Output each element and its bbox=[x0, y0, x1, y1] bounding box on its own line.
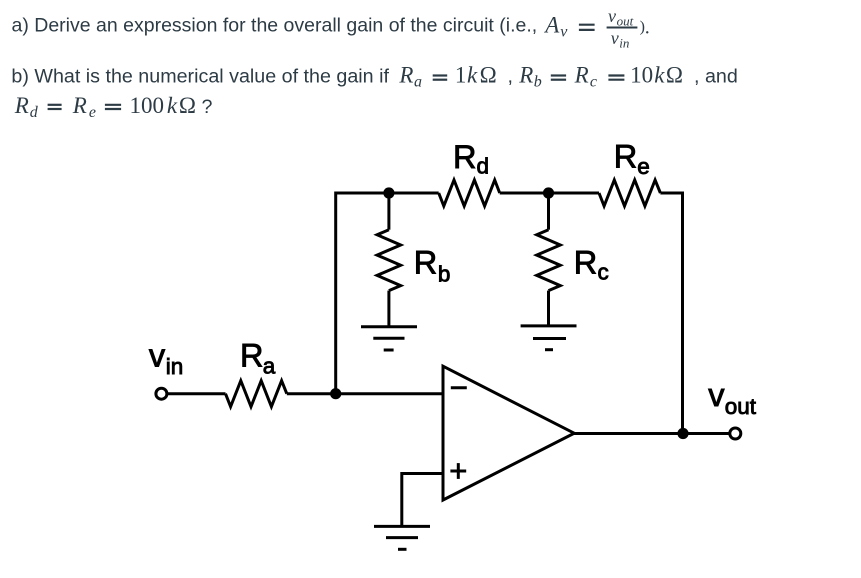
svg-text:b) What is the numerical value: b) What is the numerical value of the ga… bbox=[11, 66, 389, 88]
svg-text:A: A bbox=[543, 12, 560, 37]
svg-text:c: c bbox=[590, 74, 597, 91]
node at top wire / Rc bbox=[543, 187, 554, 198]
node at inverting input bbox=[330, 388, 341, 399]
svg-text:.: . bbox=[645, 17, 650, 39]
svg-text:R: R bbox=[14, 93, 29, 118]
wire: Rc branch upper stub bbox=[547, 193, 550, 230]
svg-text:d: d bbox=[30, 104, 39, 121]
svg-text:,: , bbox=[508, 66, 513, 88]
svg-text:R: R bbox=[453, 139, 476, 175]
svg-text:Ω: Ω bbox=[179, 93, 196, 118]
wire: top between Rd and Re bbox=[500, 192, 599, 195]
svg-text:R: R bbox=[574, 63, 589, 88]
svg-text:R: R bbox=[240, 338, 263, 374]
svg-text:Ω: Ω bbox=[480, 63, 497, 88]
svg-text:R: R bbox=[574, 244, 597, 280]
wire: non-inverting input to ground bbox=[402, 474, 443, 527]
svg-text:v: v bbox=[611, 28, 619, 48]
svg-text:k: k bbox=[467, 63, 478, 88]
wire: Ra to op-amp inverting input bbox=[287, 392, 444, 395]
svg-text:a) Derive an expression for th: a) Derive an expression for the overall … bbox=[12, 14, 538, 36]
ground under Rb bbox=[361, 325, 417, 328]
svg-text:in: in bbox=[166, 354, 184, 379]
resistor Ra bbox=[226, 381, 287, 407]
svg-text:v: v bbox=[608, 6, 616, 26]
wire: Rb branch upper stub bbox=[387, 193, 390, 230]
output terminal vout bbox=[730, 428, 741, 439]
svg-text:c: c bbox=[598, 260, 609, 285]
node at top wire / Rb bbox=[383, 187, 394, 198]
op-amp U1 triangle bbox=[443, 366, 574, 500]
svg-text:k: k bbox=[167, 93, 178, 118]
resistor Rc bbox=[537, 230, 561, 291]
svg-text:out: out bbox=[617, 13, 634, 28]
wire: top-right corner down to output node bbox=[660, 193, 682, 434]
resistor Rb bbox=[377, 230, 401, 291]
svg-text:d: d bbox=[477, 153, 490, 178]
svg-text:Ω: Ω bbox=[666, 63, 683, 88]
svg-text:v: v bbox=[149, 338, 166, 374]
wire: left feedback vertical from input node to top wire bbox=[336, 193, 439, 394]
ground under Rc bbox=[521, 324, 577, 327]
svg-text:b: b bbox=[438, 262, 451, 287]
wire: Rb to ground bbox=[387, 291, 390, 327]
svg-text:10: 10 bbox=[630, 63, 653, 88]
svg-text:1: 1 bbox=[455, 63, 467, 88]
svg-text:, and: , and bbox=[694, 66, 738, 88]
wire: vin to Ra bbox=[168, 392, 226, 395]
svg-text:R: R bbox=[414, 244, 437, 280]
svg-text:?: ? bbox=[202, 96, 213, 118]
ground at op-amp + input bbox=[374, 525, 430, 528]
op-amp minus sign bbox=[451, 386, 467, 389]
svg-text:R: R bbox=[72, 93, 87, 118]
op-amp plus sign bbox=[450, 470, 466, 473]
svg-text:k: k bbox=[654, 63, 665, 88]
equals sign line 1 bbox=[579, 25, 595, 30]
svg-text:R: R bbox=[398, 63, 413, 88]
svg-text:a: a bbox=[414, 74, 422, 91]
svg-text:e: e bbox=[89, 104, 96, 121]
svg-text:100: 100 bbox=[130, 93, 165, 118]
svg-text:b: b bbox=[534, 74, 542, 91]
svg-text:out: out bbox=[725, 394, 757, 419]
input terminal vin bbox=[156, 388, 167, 399]
svg-text:v: v bbox=[560, 23, 568, 40]
svg-text:R: R bbox=[518, 63, 533, 88]
fraction v_out over v_in bbox=[607, 6, 638, 50]
wire: Rc to ground bbox=[547, 291, 550, 326]
wire: op-amp output to vout terminal bbox=[574, 432, 730, 435]
svg-text:R: R bbox=[614, 138, 637, 174]
svg-text:a: a bbox=[263, 354, 276, 379]
svg-text:in: in bbox=[619, 35, 629, 50]
resistor Rd bbox=[439, 180, 500, 206]
node at output bbox=[677, 428, 688, 439]
svg-text:e: e bbox=[637, 154, 650, 179]
svg-text:v: v bbox=[708, 377, 725, 413]
resistor Re bbox=[599, 180, 660, 206]
